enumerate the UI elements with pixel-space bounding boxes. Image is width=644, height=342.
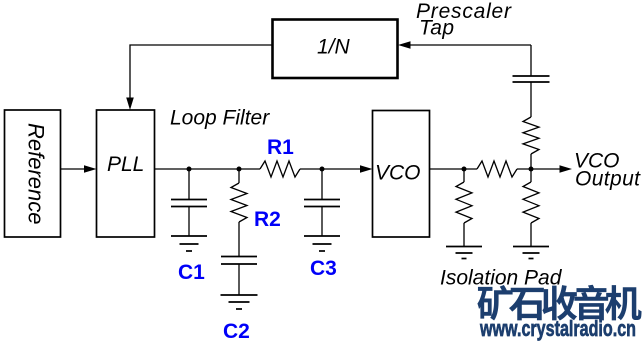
svg-text:C3: C3 — [310, 257, 337, 280]
svg-text:1/N: 1/N — [317, 36, 351, 59]
arrowhead into PLL — [84, 165, 97, 173]
ground below left shunt — [446, 247, 482, 259]
wire: right shunt down — [530, 169, 532, 182]
svg-text:Output: Output — [575, 168, 641, 191]
resistor R1 — [260, 161, 300, 177]
resistor R2 — [231, 183, 247, 222]
wire: left shunt down — [463, 169, 465, 182]
wire: C1 to ground — [188, 207, 190, 237]
wire: feedback down into PLL — [130, 45, 272, 99]
node: isolation pad left — [462, 167, 467, 172]
node: C3 junction — [320, 167, 325, 172]
wire: C2 to ground — [238, 264, 240, 295]
wire: R2 to C2 — [238, 222, 240, 257]
ground below C2 — [221, 295, 258, 309]
wire: node to C3 — [321, 169, 323, 200]
capacitor C3 — [304, 200, 340, 207]
svg-text:R1: R1 — [267, 136, 294, 159]
arrowhead into VCO — [360, 165, 373, 173]
wire: PLL to VCO main line — [154, 168, 260, 170]
svg-text:VCO: VCO — [375, 162, 421, 185]
resistor prescaler tap — [523, 117, 539, 154]
wire: tap resistor to output node — [530, 154, 532, 169]
svg-text:R2: R2 — [254, 208, 281, 231]
svg-text:Loop Filter: Loop Filter — [170, 107, 270, 130]
wire: node to R2 — [238, 169, 240, 183]
wire: Reference to PLL — [60, 168, 88, 170]
svg-text:C2: C2 — [223, 320, 250, 342]
wire: series resistor to output arrow — [517, 168, 560, 170]
ground below right shunt — [513, 247, 549, 259]
node: isolation pad right / output — [529, 167, 534, 172]
wire: right shunt to ground — [530, 223, 532, 247]
svg-text:C1: C1 — [178, 261, 205, 284]
wire: R1 right to VCO — [300, 168, 361, 170]
wire: node to C1 — [188, 169, 190, 200]
svg-text:www.crystalradio.cn: www.crystalradio.cn — [479, 316, 636, 341]
wire: VCO to output — [429, 168, 477, 170]
svg-text:Reference: Reference — [24, 123, 49, 225]
wire: prescaler tap to 1/N — [409, 44, 531, 46]
resistor isolation series — [477, 161, 517, 177]
arrowhead into PLL top — [126, 98, 134, 111]
block: VCO — [373, 111, 430, 238]
resistor isolation shunt left — [456, 182, 472, 223]
wire: left shunt to ground — [463, 223, 465, 247]
capacitor coupling (prescaler tap) — [513, 76, 550, 82]
resistor isolation shunt right — [523, 182, 539, 223]
svg-text:PLL: PLL — [107, 153, 144, 176]
capacitor C2 — [221, 257, 257, 265]
block: 1/N divider — [273, 20, 398, 79]
ground below C1 — [171, 236, 207, 251]
ground below C3 — [304, 236, 340, 251]
arrowhead VCO output — [560, 165, 573, 173]
capacitor C1 — [171, 200, 207, 207]
node: R2 junction — [237, 167, 242, 172]
node: C1 junction — [187, 167, 192, 172]
block: PLL — [97, 110, 155, 237]
watermark: crystalradio.cn Chinese logo — [477, 285, 641, 321]
wire: tap down to coupling cap — [530, 45, 532, 76]
block: Reference — [5, 110, 61, 237]
wire: C3 to ground — [321, 207, 323, 237]
wire: cap to tap resistor — [530, 82, 532, 117]
arrowhead into 1/N — [398, 41, 411, 49]
svg-text:Tap: Tap — [419, 17, 454, 40]
